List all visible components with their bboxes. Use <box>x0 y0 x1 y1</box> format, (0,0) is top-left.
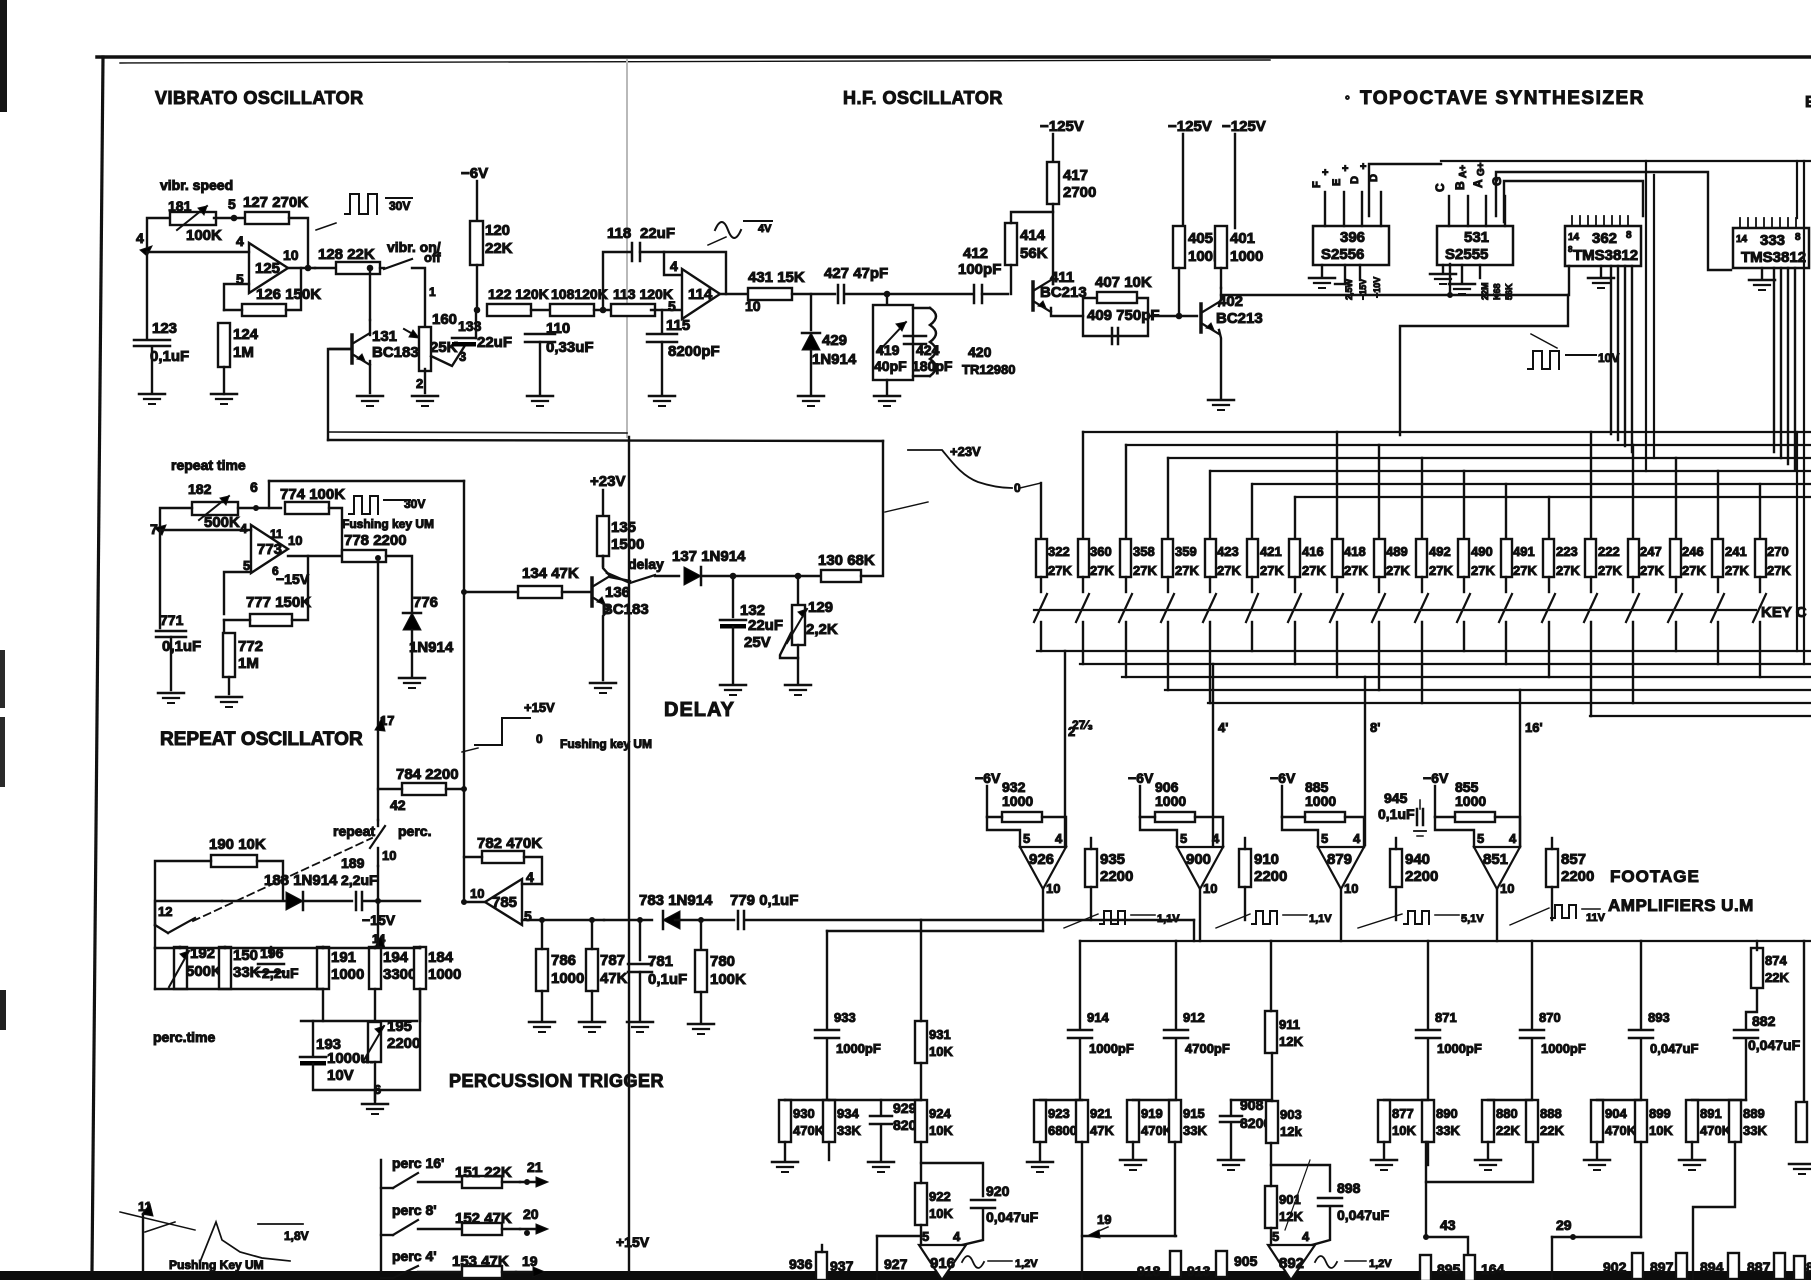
wire switch to pot160 <box>412 268 425 327</box>
key switch 416 <box>1294 577 1296 592</box>
svg-text:880: 880 <box>1496 1106 1518 1121</box>
svg-text:882: 882 <box>1752 1013 1776 1029</box>
svg-text:182: 182 <box>188 481 212 497</box>
svg-text:27K: 27K <box>1598 563 1622 578</box>
transistor 411 BC213 <box>1031 282 1035 310</box>
wire key column 421 <box>1251 484 1253 539</box>
svg-text:470K: 470K <box>793 1123 825 1138</box>
diode 137 1N914 <box>684 567 701 585</box>
ground R124 <box>211 393 237 396</box>
resistor 194 3300 <box>369 947 381 989</box>
key switch 423 <box>1209 577 1211 592</box>
resistor 911 12K <box>1265 1011 1277 1053</box>
svg-text:8200pF: 8200pF <box>668 343 720 360</box>
square wave symbol <box>1528 351 1559 369</box>
svg-text:191: 191 <box>331 949 356 966</box>
resistor 780 100K <box>695 950 707 992</box>
footage tap 2 2/3 <box>1064 651 1066 845</box>
svg-text:D: D <box>1349 176 1361 184</box>
svg-text:136: 136 <box>605 584 630 601</box>
resistor right partial 2 <box>1794 1256 1805 1280</box>
wire 108-113 <box>594 309 615 311</box>
svg-text:29: 29 <box>1556 1217 1572 1233</box>
ground 923 <box>1027 1161 1053 1164</box>
svg-text:10: 10 <box>1203 881 1217 896</box>
sine wave symbol <box>715 222 741 238</box>
svg-text:8: 8 <box>1795 232 1801 243</box>
svg-text:5: 5 <box>668 298 676 314</box>
svg-text:916: 916 <box>930 1255 955 1272</box>
svg-text:2,5W: 2,5W <box>1344 278 1354 300</box>
wire +23V down <box>602 490 604 516</box>
resistor 935 2200 <box>1085 849 1097 887</box>
wire cap 893 0,047uF <box>1640 941 1642 1029</box>
svg-text:B: B <box>1453 181 1467 190</box>
wire 773 in4 <box>160 529 251 531</box>
resistor 897 <box>1676 1253 1687 1279</box>
svg-text:−6V: −6V <box>975 770 1001 786</box>
wire pot to R127 <box>214 217 247 219</box>
resistor 360 27K <box>1078 539 1089 577</box>
svg-text:25K: 25K <box>430 339 458 356</box>
svg-text:8': 8' <box>1370 720 1380 735</box>
svg-text:2200: 2200 <box>387 1035 420 1052</box>
square wave symbol <box>345 194 377 214</box>
ground 786 <box>529 1021 555 1024</box>
svg-text:27K: 27K <box>1513 563 1537 578</box>
pointer line <box>316 223 336 230</box>
wire 189 to node <box>363 900 420 902</box>
svg-text:128 22K: 128 22K <box>318 246 375 263</box>
svg-text:14: 14 <box>1568 232 1580 243</box>
resistor 891 470K <box>1686 1100 1698 1142</box>
wire key column 423 <box>1209 471 1211 539</box>
wire key switch 241 bottom <box>1717 622 1719 664</box>
svg-text:+23V: +23V <box>950 444 981 459</box>
svg-text:359: 359 <box>1175 544 1197 559</box>
svg-text:4': 4' <box>1218 720 1228 735</box>
wire key switch 222 bottom <box>1590 622 1592 716</box>
svg-text:160: 160 <box>432 311 457 328</box>
svg-text:27K: 27K <box>1048 563 1072 578</box>
wire inverting input <box>147 251 249 253</box>
svg-text:27K: 27K <box>1640 563 1664 578</box>
svg-text:−15V: −15V <box>1358 279 1368 300</box>
wire noninv input <box>224 284 249 310</box>
svg-text:786: 786 <box>551 952 576 969</box>
resistor 780 100K <box>700 920 702 950</box>
key switch 223 <box>1548 577 1550 592</box>
svg-text:100K: 100K <box>186 227 222 244</box>
wire cap 914 1000pF <box>1079 941 1081 1029</box>
resistor 877 10K <box>1378 1100 1390 1142</box>
svg-text:889: 889 <box>1743 1106 1765 1121</box>
capacitor 781 0,1uF <box>628 963 652 966</box>
wire key switch 489 bottom <box>1378 622 1380 690</box>
ground D776 <box>399 677 425 680</box>
IC 531 S2555 <box>1437 226 1513 265</box>
svg-text:11V: 11V <box>1586 912 1606 924</box>
svg-text:500K: 500K <box>186 963 222 980</box>
wire R128 to switch <box>380 267 384 269</box>
potentiometer 182 500K <box>192 502 238 515</box>
capacitor 908 8200 <box>1220 1115 1242 1118</box>
svg-text:772: 772 <box>238 638 263 655</box>
transistor 402 BC213 <box>1199 304 1203 332</box>
capacitor 115 8200pF <box>661 310 663 332</box>
wire R122 to C110 node <box>531 309 553 311</box>
svg-text:perc.: perc. <box>398 823 431 839</box>
node dot pin5 <box>231 215 237 221</box>
wire key column 491 <box>1505 484 1507 539</box>
svg-text:BC213: BC213 <box>1216 310 1263 327</box>
wire switch to diode <box>655 575 679 577</box>
resistor 888 22K <box>1526 1100 1538 1142</box>
potentiometer 195 2200 <box>368 1022 381 1062</box>
svg-text:4: 4 <box>1055 831 1063 846</box>
svg-text:417: 417 <box>1063 167 1088 184</box>
svg-text:773: 773 <box>257 541 282 558</box>
diode 776 1N914 <box>403 613 421 630</box>
svg-text:181: 181 <box>168 198 192 214</box>
svg-text:4: 4 <box>1509 831 1517 846</box>
scan edge mark left lower <box>0 990 6 1030</box>
svg-text:33K: 33K <box>1743 1123 1767 1138</box>
key switch 489 <box>1378 577 1380 592</box>
svg-text:222: 222 <box>1598 544 1620 559</box>
node 29 wiring <box>1640 1142 1642 1237</box>
svg-text:33K: 33K <box>233 964 261 981</box>
wire key switch 492 bottom <box>1421 622 1423 703</box>
wire 131 emitter to ground <box>369 361 371 393</box>
wire key column 223 <box>1548 497 1550 539</box>
svg-text:33K: 33K <box>1436 1123 1460 1138</box>
svg-text:8: 8 <box>1806 1259 1811 1275</box>
wire vibrato out to delay upper <box>328 432 627 433</box>
resistor 889 33K <box>1729 1100 1741 1142</box>
svg-text:BC183: BC183 <box>372 344 419 361</box>
svg-text:+23V: +23V <box>590 473 625 490</box>
wire 405 bottom to base wire <box>1178 268 1180 316</box>
svg-text:4: 4 <box>236 233 244 249</box>
svg-text:431 15K: 431 15K <box>748 269 805 286</box>
wire 401 to Q402 collector <box>1220 268 1222 288</box>
resistor 190 10K <box>211 855 257 867</box>
svg-text:A+: A+ <box>1458 165 1469 178</box>
capacitor 882 0,047uF <box>1746 990 1757 1029</box>
wire 134 left <box>464 591 518 593</box>
resistor 910 2200 <box>1239 849 1251 887</box>
perc bottom rail <box>155 988 323 990</box>
svg-text:27K: 27K <box>1429 563 1453 578</box>
svg-text:774 100K: 774 100K <box>280 486 345 503</box>
wire key column 247 <box>1632 445 1634 539</box>
capacitor 189 2,2uF <box>303 900 352 902</box>
wire right edge verticals <box>1796 161 1798 218</box>
svg-text:120: 120 <box>485 222 510 239</box>
wire 777 right up <box>292 556 308 620</box>
svg-text:470K: 470K <box>1700 1123 1732 1138</box>
ground C110 <box>527 395 553 398</box>
ground IC531 <box>1430 273 1456 276</box>
svg-text:TOPOCTAVE SYNTHESIZER: TOPOCTAVE SYNTHESIZER <box>1360 88 1645 109</box>
wire R126 right to output <box>286 268 301 310</box>
wire diode to R130 <box>701 575 823 577</box>
capacitor 912 4700pF <box>1164 1029 1188 1032</box>
wire 851 output <box>1496 889 1498 941</box>
svg-text:1N914: 1N914 <box>812 351 857 368</box>
svg-text:perc 4': perc 4' <box>392 1248 437 1264</box>
svg-text:414: 414 <box>1020 227 1046 244</box>
square wave symbol <box>1100 911 1125 924</box>
parallel RC box 407/409 <box>1083 298 1148 336</box>
diode 783 1N914 <box>663 911 680 929</box>
svg-text:405: 405 <box>1188 230 1213 247</box>
resistor 164 <box>1464 1255 1475 1281</box>
op-amp 785 <box>485 879 522 925</box>
svg-text:782 470K: 782 470K <box>477 835 542 852</box>
svg-text:8: 8 <box>1568 245 1573 254</box>
ground 880 <box>1475 1159 1501 1162</box>
node 43 wiring <box>1426 1142 1533 1182</box>
svg-text:+: + <box>1342 163 1348 175</box>
scan edge mark top-left <box>0 0 7 112</box>
key switch 418 <box>1336 577 1338 592</box>
resistor 152 47K <box>462 1223 502 1235</box>
svg-text:Fushing key UM: Fushing key UM <box>342 517 434 531</box>
svg-text:5: 5 <box>1023 831 1030 846</box>
svg-text:C: C <box>1433 183 1447 192</box>
svg-text:420: 420 <box>968 344 992 360</box>
svg-text:1N914: 1N914 <box>409 639 454 656</box>
key switch 222 <box>1590 577 1592 592</box>
svg-text:perc.time: perc.time <box>153 1029 215 1045</box>
wire IC396 in <box>1335 283 1345 285</box>
key switch 360 <box>1082 577 1084 592</box>
scan edge mark left middle 2 <box>0 717 5 787</box>
IC333 ground <box>1761 268 1763 278</box>
ground 780 <box>688 1023 714 1026</box>
svg-text:929: 929 <box>893 1100 917 1116</box>
svg-text:33K: 33K <box>1183 1123 1207 1138</box>
perc network rails <box>154 925 156 948</box>
svg-text:25V: 25V <box>744 634 771 651</box>
resistor 270 27K <box>1755 539 1766 577</box>
square wave symbol <box>1252 911 1277 924</box>
diode 188 1N914 <box>286 892 303 910</box>
wire from 402 to IC362 lower link <box>1450 266 1569 295</box>
IC362 top pin stubs <box>1571 216 1573 226</box>
wire 427 to 412 <box>845 293 972 295</box>
repeat box right side <box>269 480 464 482</box>
wire key switch 423 bottom <box>1209 622 1211 703</box>
svg-text:778 2200: 778 2200 <box>344 532 407 549</box>
svg-text:396: 396 <box>1340 229 1365 246</box>
wire key column 489 <box>1378 445 1380 539</box>
perc component stubs top <box>179 947 181 948</box>
capacitor 123 0,1uF <box>146 252 148 338</box>
capacitor 133 22uF <box>452 337 476 340</box>
svg-text:1500: 1500 <box>611 536 644 553</box>
bottom black band <box>0 1271 1811 1280</box>
resistor 322 27K <box>1036 539 1047 577</box>
svg-text:401: 401 <box>1230 230 1255 247</box>
svg-text:AMPLIFIERS U.M: AMPLIFIERS U.M <box>1608 896 1754 915</box>
svg-text:TMS3812: TMS3812 <box>1741 249 1806 266</box>
wire 190 right <box>257 861 283 900</box>
svg-text:894: 894 <box>1700 1259 1724 1275</box>
svg-text:184: 184 <box>428 949 454 966</box>
svg-text:F: F <box>1311 181 1323 188</box>
wire key switch 270 bottom <box>1759 622 1761 677</box>
svg-text:1,2V: 1,2V <box>1369 1258 1392 1270</box>
resistor 135 1500 <box>597 516 609 556</box>
svg-text:1,8V: 1,8V <box>284 1229 309 1243</box>
svg-text:0: 0 <box>536 732 543 746</box>
wire Q402 collector to ICs <box>1221 294 1450 296</box>
key switch 270 <box>1759 577 1761 592</box>
capacitor 871 1000pF <box>1416 1029 1440 1032</box>
switch 12 <box>168 918 195 933</box>
resistor 894 <box>1728 1253 1739 1279</box>
svg-text:1000: 1000 <box>428 966 461 983</box>
svg-text:333: 333 <box>1760 232 1785 249</box>
wire 785 pin5 rail <box>522 919 604 921</box>
wire staircase S2556 area <box>1369 164 1441 216</box>
svg-text:12: 12 <box>158 904 172 919</box>
resistor 414 56K <box>1005 223 1017 265</box>
svg-text:4: 4 <box>1212 831 1220 846</box>
wire IC362 output verticals <box>1610 266 1612 434</box>
wire right edge vertical 2 <box>1796 432 1798 651</box>
resistor 902 <box>1632 1253 1643 1279</box>
svg-text:4: 4 <box>240 521 248 536</box>
svg-text:900: 900 <box>1186 851 1211 868</box>
wire key switch 491 bottom <box>1505 622 1507 664</box>
svg-text:1,1V: 1,1V <box>1309 913 1332 925</box>
svg-text:783 1N914: 783 1N914 <box>639 892 713 909</box>
key bus bottom line 6 <box>1590 715 1811 717</box>
svg-text:1M: 1M <box>238 655 259 672</box>
svg-text:−10V: −10V <box>1372 277 1382 298</box>
svg-text:DELAY: DELAY <box>664 699 735 721</box>
svg-text:936: 936 <box>789 1256 813 1272</box>
wire 414 top <box>1011 212 1053 223</box>
resistor 108 120K <box>550 304 594 316</box>
capacitor 920 0,047uF <box>971 1199 995 1202</box>
resistor 774 100K <box>285 502 329 514</box>
svg-text:−125V: −125V <box>1040 118 1084 135</box>
svg-text:360: 360 <box>1090 544 1112 559</box>
IC396 top pins <box>1324 192 1326 226</box>
svg-text:491: 491 <box>1513 544 1535 559</box>
key bus top lines <box>1083 431 1811 433</box>
svg-text:VIBRATO OSCILLATOR: VIBRATO OSCILLATOR <box>155 88 364 108</box>
diode 429 1N914 <box>810 294 812 330</box>
wire vibrato out to delay lower <box>328 440 883 441</box>
svg-text:FOOTAGE: FOOTAGE <box>1610 867 1700 886</box>
svg-text:22K: 22K <box>485 240 513 257</box>
wire 113 to opamp 114 <box>651 309 682 311</box>
wire key switch 322 bottom <box>1040 622 1042 651</box>
ground C115 <box>649 395 675 398</box>
svg-text:12K: 12K <box>1279 1034 1303 1049</box>
resistor 491 27K <box>1501 539 1512 577</box>
resistor 222 27K <box>1585 539 1596 577</box>
capacitor 189 2,2uF <box>355 892 358 910</box>
svg-text:4: 4 <box>670 258 678 274</box>
resistor 778 2200 <box>342 550 386 562</box>
wire cap133 to node <box>475 310 477 338</box>
op-amp 773 <box>251 525 288 573</box>
resistor 899 10K <box>1635 1100 1647 1142</box>
resistor 904 470K <box>1591 1100 1603 1142</box>
resistor 150 33K <box>219 947 231 989</box>
envelope graph +23V <box>908 450 1012 488</box>
potentiometer 192 500K <box>174 947 187 989</box>
inductor 420 TR12980 <box>930 308 936 376</box>
svg-text:E: E <box>1805 94 1811 111</box>
svg-text:10: 10 <box>288 533 302 548</box>
svg-text:22K: 22K <box>1496 1123 1520 1138</box>
svg-text:892: 892 <box>1279 1255 1304 1272</box>
svg-text:perc 16': perc 16' <box>392 1155 444 1171</box>
svg-text:490: 490 <box>1471 544 1493 559</box>
svg-text:427 47pF: 427 47pF <box>824 265 888 282</box>
svg-text:33K: 33K <box>837 1123 861 1138</box>
resistor 489 27K <box>1374 539 1385 577</box>
resistor 241 27K <box>1712 539 1723 577</box>
svg-text:3300: 3300 <box>383 966 416 983</box>
svg-text:22uF: 22uF <box>477 334 512 351</box>
svg-text:TR12980: TR12980 <box>962 362 1015 377</box>
svg-text:22uF: 22uF <box>640 225 675 242</box>
wire 131 base left <box>328 349 352 440</box>
svg-text:779 0,1uF: 779 0,1uF <box>730 892 798 909</box>
key switch 247 <box>1632 577 1634 592</box>
resistor 937 <box>816 1252 827 1280</box>
wire opamp114 out <box>720 293 751 295</box>
svg-text:780: 780 <box>710 953 735 970</box>
svg-text:0,1uF: 0,1uF <box>150 348 189 365</box>
ground 781 <box>627 1021 653 1024</box>
svg-text:500K: 500K <box>204 514 240 531</box>
svg-text:910: 910 <box>1254 851 1279 868</box>
IC531 bottom pins <box>1442 265 1444 272</box>
label 1,2V for 892 <box>1345 1260 1366 1262</box>
LC tank top wire <box>886 294 888 305</box>
svg-text:−6V: −6V <box>1423 770 1449 786</box>
scan edge mark left middle <box>0 650 5 708</box>
wire key column 418 <box>1336 432 1338 539</box>
svg-text:10: 10 <box>382 848 396 863</box>
resistor 423 27K <box>1205 539 1216 577</box>
IC362 ground <box>1600 266 1602 276</box>
svg-text:887: 887 <box>1747 1259 1771 1275</box>
resistor 777 150K <box>250 614 292 626</box>
svg-text:150: 150 <box>233 947 258 964</box>
switch vibr on/off <box>384 259 412 269</box>
svg-text:+15V: +15V <box>616 1234 650 1250</box>
svg-text:129: 129 <box>808 599 833 616</box>
resistor 901 12K <box>1265 1186 1277 1228</box>
wire 900 output <box>1199 889 1201 941</box>
resistor 124 1M <box>218 323 230 367</box>
resistor 913 <box>1216 1251 1227 1277</box>
svg-text:S2555: S2555 <box>1445 246 1488 263</box>
wire 195 bottom <box>374 1062 376 1100</box>
wires 930/934 grounds <box>784 1142 786 1160</box>
